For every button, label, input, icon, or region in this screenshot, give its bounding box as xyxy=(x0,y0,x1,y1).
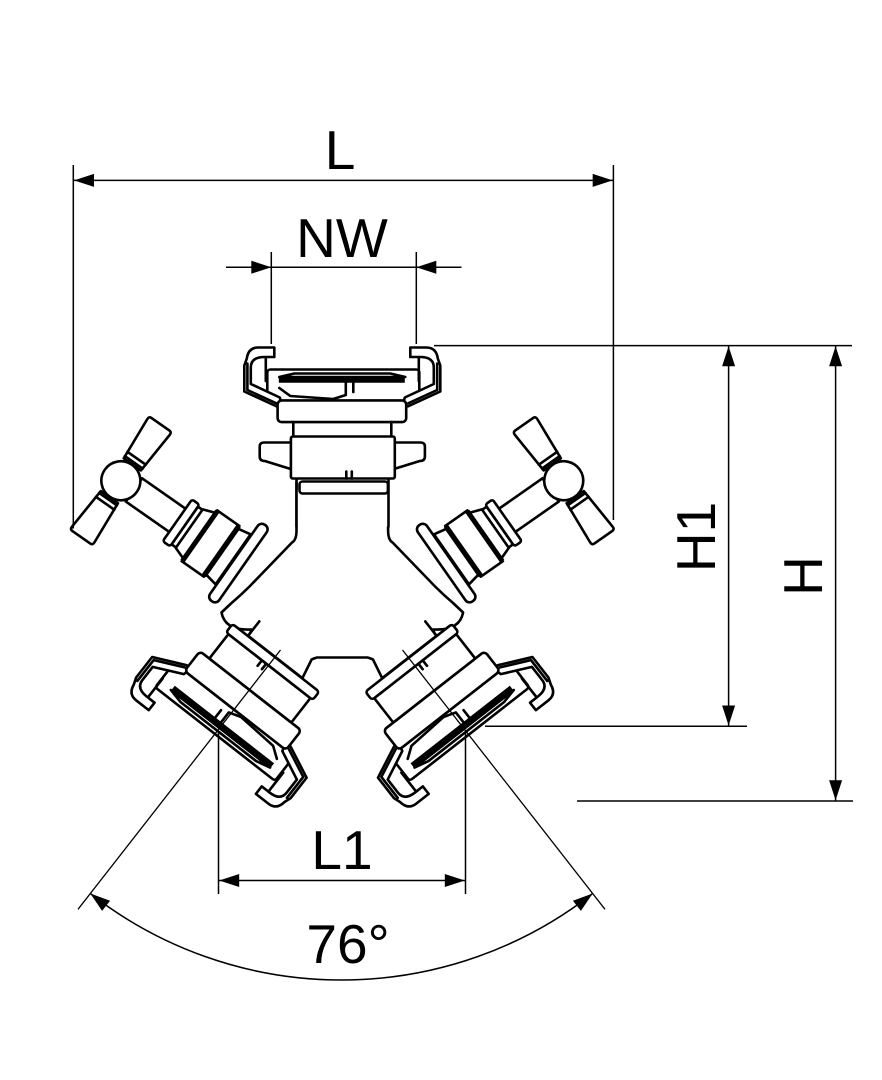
svg-text:L1: L1 xyxy=(311,819,372,881)
angle 76: arc xyxy=(90,894,592,980)
svg-text:H1: H1 xyxy=(665,502,727,572)
dimension L: right arrowhead xyxy=(593,174,613,187)
dimension L1: left extension line xyxy=(218,732,220,894)
dimension NW: dimension line with outside tails xyxy=(226,266,462,268)
dimension H1: dimension line xyxy=(728,346,730,727)
angle 76: right arrowhead xyxy=(573,894,593,911)
lower-left claw coupling xyxy=(125,583,364,812)
dimension NW: left extension line xyxy=(270,252,272,344)
angle 76: right radial line xyxy=(403,650,606,909)
dimension L1: right extension line xyxy=(465,732,467,894)
svg-text:76°: 76° xyxy=(306,913,389,975)
right valve with cross handle xyxy=(402,413,619,623)
angle 76: left arrowhead xyxy=(90,894,110,911)
dimension L: right extension line xyxy=(612,165,614,520)
angle 76: left radial line xyxy=(78,650,281,909)
Y-distributor body xyxy=(222,482,464,681)
left valve with cross handle xyxy=(65,413,282,623)
extension line H1 bottom datum xyxy=(485,725,747,727)
dimension L1: dimension line xyxy=(219,880,466,882)
svg-text:H: H xyxy=(772,556,834,596)
dimension NW: right extension line xyxy=(415,252,417,344)
dimension H: top arrowhead xyxy=(829,346,842,366)
dimension L1: right arrowhead xyxy=(445,874,465,887)
extension line H bottom datum xyxy=(577,800,853,802)
dimension NW: right arrowhead xyxy=(416,261,436,274)
dimension L: left arrowhead xyxy=(74,174,94,187)
dimension L: dimension line xyxy=(73,179,613,181)
dimension H1: top arrowhead xyxy=(722,346,735,366)
dimension H: bottom arrowhead xyxy=(829,780,842,800)
dimension H1: bottom arrowhead xyxy=(722,706,735,726)
extension line from coupling top (H/H1 datum) xyxy=(434,345,852,347)
top claw coupling xyxy=(244,348,440,527)
svg-text:NW: NW xyxy=(296,207,388,269)
dimension H: dimension line xyxy=(835,346,837,801)
lower-right claw coupling xyxy=(320,583,559,812)
svg-text:L: L xyxy=(325,119,356,181)
dimension NW: left arrowhead xyxy=(251,261,271,274)
dimension L: left extension line xyxy=(72,165,74,529)
dimension L1: left arrowhead xyxy=(219,874,239,887)
